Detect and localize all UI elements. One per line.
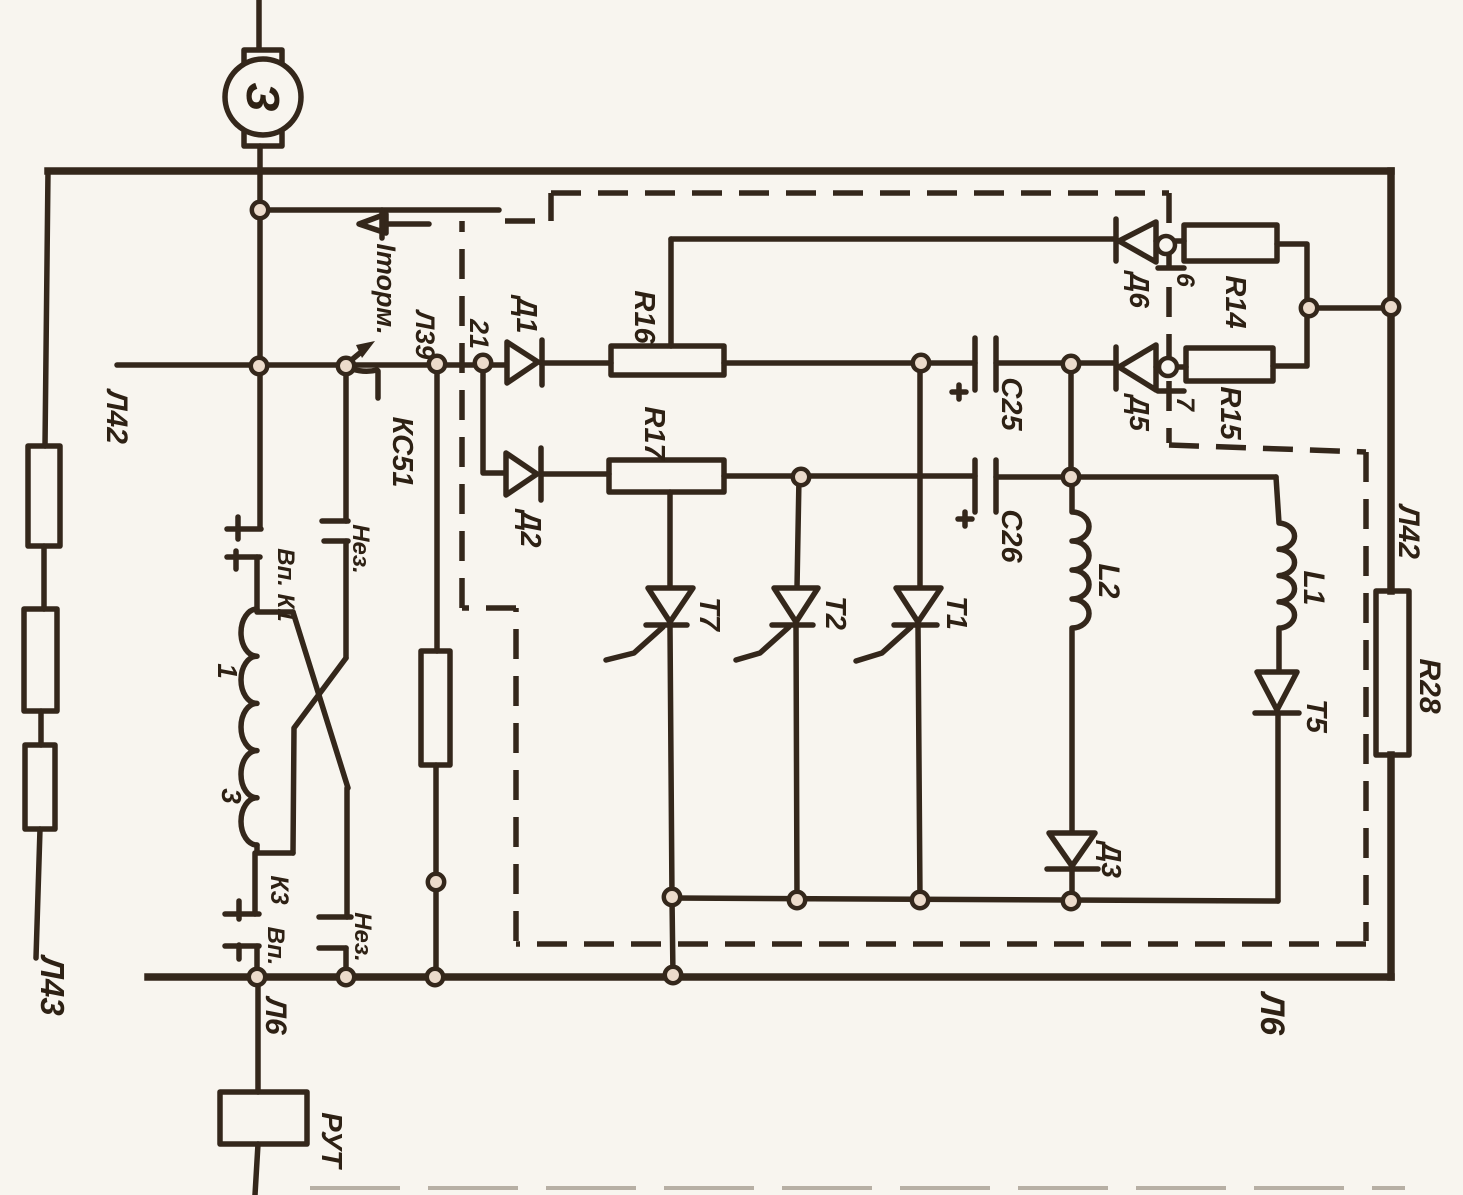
dashed enclosure step right bbox=[1169, 445, 1366, 452]
svg-text:T1: T1 bbox=[940, 596, 972, 630]
capacitor C26 bbox=[975, 460, 996, 512]
resistor R14 bbox=[1184, 225, 1277, 261]
rail B lower to contact bbox=[344, 788, 350, 917]
resistor on Л39 line bbox=[421, 651, 450, 765]
thyristor T7 bbox=[667, 492, 673, 588]
dashed enclosure right inner edge bbox=[1166, 193, 1172, 443]
row2 wire R17 to C26 bbox=[724, 473, 975, 479]
dashed enclosure right edge bbox=[1363, 452, 1369, 941]
svg-text:Л42: Л42 bbox=[100, 388, 133, 444]
scan artifact line bbox=[310, 1186, 1405, 1190]
ballast resistor 3 bbox=[25, 745, 55, 829]
dashed enclosure left upper edge bbox=[459, 221, 465, 608]
svg-text:Л42: Л42 bbox=[1392, 503, 1425, 559]
wire contact to coil bbox=[254, 557, 260, 609]
junction node bus rail B bbox=[338, 969, 354, 985]
coil bottom step К3 bbox=[257, 845, 293, 853]
svg-text:R15: R15 bbox=[1214, 386, 1246, 440]
wire to Л43 bbox=[36, 829, 40, 958]
contact Вп.К1 bottom bar bbox=[227, 551, 260, 569]
dashed enclosure step left bbox=[462, 605, 516, 611]
svg-text:Л39: Л39 bbox=[410, 309, 440, 360]
junction node R14 R15 bbox=[1301, 300, 1317, 316]
diode T5 bbox=[1257, 672, 1297, 710]
disconnector blade at КС51 bbox=[349, 348, 366, 362]
row1 wire R16 to C25 bbox=[724, 360, 975, 366]
svg-text:Нез.: Нез. bbox=[349, 912, 376, 962]
diode Д6 bbox=[1113, 219, 1119, 261]
dashed enclosure bottom edge bbox=[516, 941, 1366, 947]
motor M (З) top brush terminal bbox=[244, 50, 282, 64]
arrow Iторм. bbox=[368, 221, 429, 227]
wire top feed to motor bbox=[256, 0, 262, 49]
diode Д1 bbox=[507, 342, 538, 383]
main row wire to Д1 bbox=[259, 362, 509, 368]
svg-text:Д2: Д2 bbox=[514, 507, 546, 547]
svg-text:Д6: Д6 bbox=[1124, 270, 1155, 308]
wire contact to bus bbox=[254, 946, 260, 977]
svg-text:Нез.: Нез. bbox=[347, 524, 374, 574]
terminal 6 bbox=[1157, 236, 1175, 254]
junction node motor top bbox=[252, 202, 268, 218]
top bus wire bbox=[48, 167, 1391, 175]
svg-text:C26: C26 bbox=[995, 509, 1027, 563]
svg-text:L2: L2 bbox=[1092, 563, 1125, 598]
wire bbox=[38, 711, 44, 745]
svg-text:Вп.: Вп. bbox=[262, 927, 289, 966]
svg-text:21: 21 bbox=[464, 318, 494, 349]
wire C25 to Д5 bbox=[996, 360, 1116, 366]
wire R16 top tap bbox=[668, 239, 674, 346]
resistor R15 bbox=[1186, 348, 1273, 381]
field coil winding 1-3 bbox=[241, 609, 257, 845]
junction node C25 right bbox=[1063, 356, 1079, 372]
svg-text:З: З bbox=[237, 82, 289, 112]
junction node L2 top bbox=[1063, 469, 1079, 485]
junction node bus Л39 bbox=[427, 969, 443, 985]
junction node Л39 mid bbox=[428, 874, 444, 890]
svg-text:R16: R16 bbox=[628, 290, 660, 344]
wire R15 to node bbox=[1273, 308, 1307, 366]
diode Д3 bbox=[1049, 833, 1095, 866]
wire node to bus bbox=[1309, 305, 1391, 311]
svg-text:КС51: КС51 bbox=[386, 417, 418, 488]
junction node T7 bottom bbox=[664, 889, 680, 905]
wire to Д6 bbox=[671, 236, 1116, 242]
contact Вп. bottom bars bbox=[225, 901, 259, 959]
svg-text:1: 1 bbox=[212, 663, 243, 679]
junction node bus T7 bbox=[665, 967, 681, 983]
crossover diagonal 2 bbox=[293, 658, 346, 853]
wire motor down through bus to contact Вп.К1 bbox=[257, 146, 263, 528]
svg-text:Д1: Д1 bbox=[510, 293, 542, 333]
junction node bus Л6 bbox=[249, 969, 265, 985]
C25 plus bbox=[952, 385, 966, 399]
C26 plus bbox=[958, 512, 972, 526]
svg-text:7: 7 bbox=[1171, 397, 1199, 412]
svg-text:T5: T5 bbox=[1300, 699, 1332, 734]
svg-text:3: 3 bbox=[216, 788, 247, 804]
resistor R17 bbox=[609, 460, 724, 492]
motor bottom brush terminal bbox=[244, 132, 282, 146]
T2 cathode wire bbox=[796, 625, 797, 900]
junction node motor row bbox=[251, 358, 267, 374]
svg-text:R14: R14 bbox=[1219, 275, 1251, 328]
svg-text:6: 6 bbox=[1171, 273, 1199, 288]
junction node T1 bottom bbox=[912, 892, 928, 908]
junction node 21 bbox=[475, 355, 491, 371]
inductor L2 bbox=[1072, 477, 1089, 833]
wire C25 junction to C26 junction bbox=[1068, 364, 1074, 477]
wire bbox=[41, 546, 47, 609]
dashed enclosure left lower edge bbox=[513, 608, 519, 941]
svg-text:C25: C25 bbox=[995, 377, 1027, 431]
wire R14 to node bbox=[1277, 244, 1307, 308]
relay РУТ coil box bbox=[220, 1092, 307, 1144]
thyristor T1 bbox=[917, 363, 923, 588]
junction node Л39 bbox=[429, 356, 445, 372]
right bus wire below R28 bbox=[1387, 755, 1395, 977]
svg-text:T2: T2 bbox=[819, 596, 851, 630]
capacitor C25 bbox=[975, 338, 996, 390]
svg-text:L1: L1 bbox=[1297, 570, 1330, 605]
contact Нез. bottom bars bbox=[319, 917, 351, 948]
svg-text:Iторм.: Iторм. bbox=[371, 243, 401, 334]
rail B upper from junction bbox=[343, 366, 349, 521]
wire Д2 to R17 bbox=[540, 471, 609, 477]
svg-text:Л6: Л6 bbox=[259, 995, 292, 1035]
svg-text:T7: T7 bbox=[693, 597, 725, 633]
bottom bus wire bbox=[148, 973, 1391, 981]
right bus wire down bbox=[1387, 171, 1395, 591]
wire T5 down and left bbox=[1275, 713, 1281, 901]
rail B middle bbox=[343, 541, 349, 658]
crossover top step bbox=[257, 609, 293, 615]
terminal 7 tick bbox=[1158, 388, 1184, 394]
contact Нез. top bars bbox=[322, 521, 348, 541]
svg-text:РУТ: РУТ bbox=[315, 1112, 347, 1170]
left branch wire from top bus bbox=[45, 171, 48, 446]
T7 gate bbox=[606, 627, 663, 660]
junction node right bus bbox=[1383, 299, 1399, 315]
wire to bottom bus bbox=[433, 765, 439, 977]
wire Д6 to R14 bbox=[1156, 238, 1184, 244]
dashed enclosure top edge bbox=[551, 190, 1169, 196]
connector hook КС51 bbox=[352, 369, 378, 398]
junction node T2 bottom bbox=[789, 892, 805, 908]
contact Вп.К1 top bar bbox=[227, 517, 261, 539]
wire stub Л42 bbox=[117, 362, 259, 368]
diode Д2 bbox=[506, 453, 537, 495]
T7 cathode wire bbox=[670, 627, 672, 898]
inductor L1 bbox=[1276, 477, 1295, 672]
wire from motor junction to dashed box bbox=[260, 207, 499, 213]
svg-text:К3: К3 bbox=[265, 875, 293, 904]
terminal 7 bbox=[1159, 358, 1177, 376]
wire Л39 down bbox=[434, 364, 440, 651]
wire Д5 to R15 bbox=[1156, 364, 1186, 370]
wire to bus bbox=[343, 948, 349, 977]
svg-text:R17: R17 bbox=[638, 406, 670, 461]
rail A lower bbox=[252, 853, 258, 914]
resistor R16 bbox=[611, 346, 724, 375]
junction node T1 top bbox=[913, 355, 929, 371]
diode Д5 bbox=[1113, 347, 1119, 389]
junction node КС51 bbox=[338, 358, 354, 374]
thyristor T2 bbox=[797, 477, 799, 588]
motor M (З) body bbox=[225, 59, 301, 135]
junction node T2 top bbox=[793, 469, 809, 485]
ballast resistor 1 bbox=[28, 446, 60, 546]
wire РУТ down bbox=[255, 1144, 258, 1195]
dashed enclosure left top step bbox=[505, 193, 551, 221]
T1 cathode wire bbox=[918, 625, 920, 900]
wire Д1 to R16 bbox=[541, 360, 611, 366]
T7 tail to bus bbox=[672, 898, 673, 977]
svg-text:Л43: Л43 bbox=[34, 954, 71, 1015]
node 21 down wire bbox=[483, 363, 507, 473]
svg-text:Л6: Л6 bbox=[1253, 990, 1291, 1036]
T1 gate bbox=[856, 627, 911, 661]
svg-text:Д3: Д3 bbox=[1096, 840, 1127, 878]
svg-text:R28: R28 bbox=[1413, 658, 1446, 713]
bottom link wire bbox=[672, 898, 1278, 901]
svg-text:Д5: Д5 bbox=[1124, 393, 1155, 431]
T2 gate bbox=[736, 627, 789, 660]
ballast resistor 2 bbox=[24, 609, 57, 711]
crossover diagonal 1 bbox=[293, 612, 348, 788]
relay РУТ wire bbox=[255, 977, 261, 1092]
terminal 6 tick bbox=[1158, 265, 1184, 271]
resistor R28 bbox=[1376, 591, 1409, 755]
row2 wire C26 to L1 corner bbox=[996, 474, 1276, 480]
junction node Д3 bottom bbox=[1063, 893, 1079, 909]
